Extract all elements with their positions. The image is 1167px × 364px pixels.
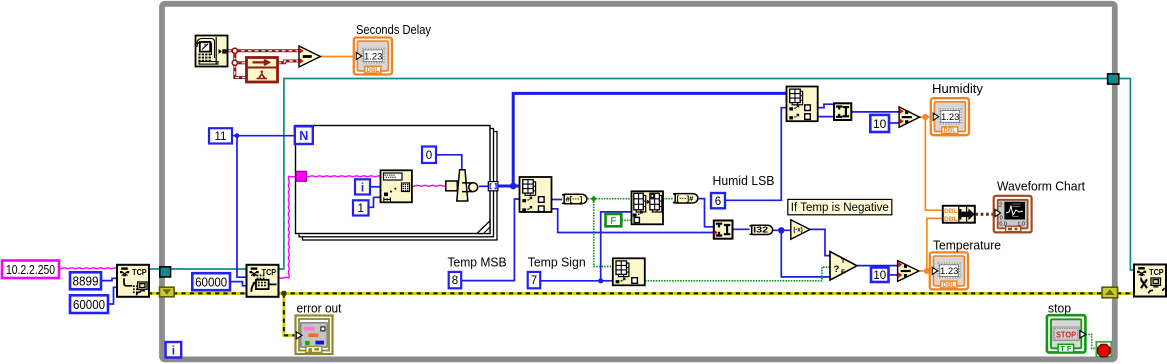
- replace array subset function: [632, 191, 664, 224]
- wire wait out to subtract: [278, 61, 300, 63]
- for loop output tunnel: [488, 182, 498, 191]
- constant 10.2.2.250 IP address: [2, 261, 59, 279]
- svg-text:0: 0: [426, 150, 432, 162]
- divide 2 (temperature): [898, 261, 919, 282]
- wire subtract to Seconds Delay: [320, 56, 356, 58]
- svg-text:F: F: [841, 269, 845, 276]
- wire teal right tunnel to TCP close: [1118, 79, 1136, 271]
- svg-text:If Temp is Negative: If Temp is Negative: [791, 200, 889, 214]
- wire 6 to index array 3 index: [725, 108, 787, 201]
- while loop condition terminal: [1096, 342, 1111, 357]
- wire byte array branch up to index array 3: [513, 93, 786, 186]
- Humidity indicator: [931, 98, 969, 135]
- select function: [830, 252, 857, 281]
- svg-text:error out: error out: [297, 300, 342, 315]
- wire string subset to type cast: [412, 184, 446, 187]
- wire 7 to index array 2: [540, 280, 613, 282]
- svg-text:I32: I32: [753, 225, 768, 235]
- wire type cast to output tunnel: [479, 185, 489, 187]
- wire 8 to index array 1: [461, 199, 520, 281]
- svg-text:1.23: 1.23: [364, 51, 383, 62]
- wire index array 1 out2 to join: [552, 209, 714, 233]
- svg-text:TCP: TCP: [1149, 267, 1164, 277]
- wire bool-to-num to join top: [699, 199, 714, 227]
- while loop iteration terminal: [166, 342, 182, 358]
- orange junction humidity: [922, 114, 928, 120]
- for loop i terminal: [355, 179, 370, 194]
- error out indicator: [296, 316, 333, 355]
- join numbers 1: [714, 221, 733, 239]
- svg-text:DBL: DBL: [943, 282, 956, 289]
- join numbers 2: [834, 103, 851, 120]
- conversion to I32: [750, 225, 773, 235]
- constant 60000 timeout 1: [70, 295, 108, 313]
- wire tick count to subtract: [228, 49, 300, 52]
- svg-text:Temp Sign: Temp Sign: [528, 255, 586, 270]
- error wire junction: [281, 291, 287, 297]
- constant 6 Humid LSB: [711, 193, 725, 208]
- wire 10 to divide1: [889, 122, 899, 124]
- for loop pink tunnel: [296, 171, 307, 181]
- while loop border: [162, 4, 1115, 360]
- for loop frame: [296, 126, 491, 234]
- wire junction down to wait: [235, 51, 247, 78]
- error wire across loop: [173, 292, 1103, 295]
- svg-text:Temperature: Temperature: [933, 238, 1001, 253]
- wire pink tunnel to string subset: [307, 175, 381, 178]
- label box If Temp is Negative: [788, 199, 892, 214]
- blue junction at 7: [598, 278, 603, 283]
- negate function: [791, 220, 810, 239]
- wire bool array branch down to index array 2: [594, 199, 613, 267]
- svg-text:stop: stop: [1048, 301, 1071, 316]
- type cast function: [446, 170, 478, 201]
- svg-text:DBL: DBL: [944, 128, 957, 135]
- wire 10 to divide2: [889, 274, 898, 276]
- for loop corner fold: [477, 221, 490, 234]
- error wire TCP open to left shift register: [148, 292, 160, 295]
- svg-text:2: 2: [999, 202, 1002, 208]
- index array 2 (temp sign): [613, 258, 645, 285]
- TCP open connection: [117, 265, 149, 297]
- wire divide1 to Humidity: [920, 116, 935, 118]
- svg-text:6: 6: [715, 196, 721, 208]
- constant 60000 timeout 2: [192, 273, 230, 290]
- for loop stacked frame 2: [299, 129, 494, 237]
- wire 60000 to TCP open: [108, 287, 117, 304]
- left shift register: [160, 287, 175, 297]
- wire negate to select t: [810, 229, 830, 255]
- constant 10 (humidity): [870, 115, 889, 132]
- Temperature indicator: [930, 252, 968, 289]
- svg-text:10: 10: [873, 117, 887, 131]
- wire i terminal to string subset: [370, 186, 381, 188]
- svg-text:T F: T F: [1060, 344, 1072, 353]
- wire string 10.2.2.250 to TCP open: [59, 267, 117, 270]
- svg-text:7: 7: [531, 275, 537, 287]
- wire 7 branch to replace subset index: [601, 212, 632, 281]
- waveform chart indicator: [994, 196, 1032, 233]
- svg-text:Humidity: Humidity: [932, 81, 983, 96]
- for loop N count terminal: [295, 126, 313, 144]
- svg-text:1: 1: [358, 203, 364, 215]
- high resolution polling wait icon: [247, 58, 278, 83]
- wire humidity branch to merge top: [925, 117, 943, 210]
- svg-text:i: i: [172, 344, 175, 358]
- wire select to divide2: [857, 265, 898, 267]
- constant 1: [353, 200, 369, 215]
- svg-text:i: i: [361, 183, 364, 195]
- wire num-to-bool out: [588, 198, 632, 200]
- wire index array 3 out2 to join2: [818, 116, 834, 118]
- subtract function: [299, 46, 320, 67]
- string subset function: [381, 170, 412, 202]
- constant 10 (temperature): [871, 268, 889, 283]
- teal tunnel left: [160, 267, 171, 277]
- svg-text:0: 0: [1000, 215, 1003, 221]
- wire stop to loop condition: [1086, 334, 1097, 348]
- wire replace subset to bool-to-num: [663, 198, 673, 200]
- svg-text:DBL: DBL: [944, 216, 958, 223]
- wire join1 to I32: [733, 228, 750, 230]
- wire index array 1 out1 to num-to-bool: [552, 199, 563, 201]
- teal tunnel right: [1108, 74, 1119, 84]
- constant F (false): [606, 214, 622, 227]
- svg-text:?: ?: [834, 264, 840, 275]
- svg-text:11: 11: [215, 131, 227, 143]
- svg-text:(-x): (-x): [793, 228, 802, 234]
- stop button control: [1047, 315, 1086, 353]
- svg-text:#[···]: #[···]: [566, 197, 583, 204]
- wire 11 to N terminal: [232, 135, 295, 137]
- svg-text:Temp MSB: Temp MSB: [448, 255, 507, 270]
- wire 11 branch to TCP read bytes: [237, 136, 247, 278]
- svg-text:60000: 60000: [73, 297, 105, 312]
- wire join2 to divide1: [851, 111, 899, 113]
- wire teal tunnel to TCP read: [170, 268, 247, 270]
- constant 7 Temp Sign: [528, 272, 541, 288]
- svg-text:F: F: [610, 216, 616, 227]
- svg-text:8899: 8899: [73, 273, 99, 288]
- constant 11 bytes: [209, 128, 232, 143]
- wire TCP read data out up to for loop tunnel: [279, 176, 297, 278]
- wire 8899 to TCP open: [101, 278, 117, 280]
- svg-text:8: 8: [452, 275, 458, 287]
- wire I32 branch to select f: [781, 230, 830, 277]
- blue junction byte array: [510, 183, 517, 190]
- error wire branch to error out: [284, 293, 297, 335]
- svg-text:Waveform Chart: Waveform Chart: [997, 179, 1085, 194]
- wire temp sign to select s: [645, 267, 830, 281]
- blue junction at 11: [235, 133, 240, 138]
- orange junction temperature: [924, 268, 930, 274]
- index array 3 (humidity bytes): [787, 87, 818, 122]
- wire I32 to negate: [774, 229, 791, 231]
- svg-text:60000: 60000: [195, 274, 227, 289]
- TCP close connection: [1134, 265, 1166, 297]
- wire 1 to string subset length: [369, 197, 381, 207]
- wire byte array from for loop: [498, 185, 520, 188]
- svg-text:TCP: TCP: [132, 267, 147, 277]
- constant 8899 port: [70, 272, 101, 289]
- svg-text:DBL: DBL: [367, 67, 380, 74]
- wire temperature branch to merge bottom: [927, 218, 943, 271]
- high resolution relative seconds icon: [196, 36, 228, 67]
- svg-text:10.2.2.250: 10.2.2.250: [6, 262, 55, 277]
- svg-text:1.23: 1.23: [940, 266, 959, 277]
- svg-text:[···]#: [···]#: [677, 196, 694, 203]
- constant 8 Temp MSB: [449, 272, 462, 288]
- number to boolean array: [562, 194, 587, 203]
- wire F constant to replace subset: [622, 219, 632, 221]
- svg-text:DBL: DBL: [944, 208, 958, 215]
- svg-text:Humid LSB: Humid LSB: [713, 173, 775, 188]
- constant 0: [422, 147, 436, 164]
- Seconds Delay indicator: [354, 38, 392, 75]
- wire 60000 to TCP read timeout: [230, 282, 247, 286]
- merge signals function: [943, 206, 975, 223]
- index array 1 (byte extract): [520, 177, 552, 212]
- svg-text:10: 10: [873, 270, 886, 282]
- wire ring junction 1: [232, 48, 237, 53]
- for loop stacked frame 3: [303, 132, 498, 241]
- error wire right shift register to TCP close: [1117, 292, 1136, 295]
- blue junction at I32 out: [778, 227, 784, 233]
- divide 1 (humidity): [899, 107, 919, 127]
- svg-text:STOP: STOP: [1056, 330, 1077, 339]
- wire ring2 to wait box: [235, 61, 247, 64]
- wire divide2 to Temperature: [920, 270, 934, 272]
- right shift register: [1102, 287, 1118, 298]
- TCP read: [247, 265, 279, 297]
- wire teal TCP open to tunnel: [149, 268, 161, 270]
- wire ring junction 2: [232, 60, 237, 65]
- boolean array to number: [673, 194, 698, 203]
- wire 0 to type cast type input: [436, 155, 462, 171]
- svg-text:Seconds Delay: Seconds Delay: [356, 22, 431, 37]
- wire teal TCP read conn out to top and right tunnel: [279, 79, 1109, 270]
- green junction diamond: [591, 196, 597, 202]
- wire index array 3 out1 to join2: [818, 104, 834, 108]
- svg-text:1.23: 1.23: [941, 112, 960, 123]
- svg-text:N: N: [299, 129, 308, 143]
- wire dynamic data to waveform chart: [975, 213, 995, 216]
